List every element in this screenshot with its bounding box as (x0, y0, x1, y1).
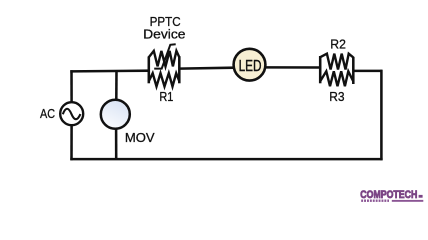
resistor R3 zigzag (bottom branch) (320, 71, 353, 86)
PPTC strike line (154, 44, 176, 68)
AC source circle (60, 102, 83, 125)
wire: left vertical lower (AC source to bottom rail) (70, 124, 73, 160)
wire: R2/R3 combo to right vertical (353, 70, 382, 73)
svg-text:R2: R2 (330, 37, 346, 52)
PPTC/R1 parallel combo: left bar (148, 57, 151, 84)
logo subline: url bar (392, 200, 424, 202)
wire: bottom rail (70, 158, 382, 161)
svg-text:R1: R1 (159, 89, 173, 104)
svg-text:LED: LED (239, 58, 262, 75)
wire: PPTC combo to LED (179, 66, 234, 69)
R2/R3 parallel combo: left bar (319, 56, 322, 83)
wire: LED to R2/R3 combo (265, 66, 321, 69)
varistor MOV circle (101, 100, 130, 129)
PPTC device zigzag (top branch) (149, 51, 180, 67)
svg-text:MOV: MOV (125, 130, 155, 145)
PPTC/R1 parallel combo: right bar (178, 56, 181, 83)
svg-text:Device: Device (143, 27, 185, 42)
logo small asia mark (419, 195, 423, 198)
logo subline: CJK tagline dots (361, 200, 389, 202)
svg-text:R3: R3 (329, 89, 344, 104)
wire: MOV branch upper vertical (115, 70, 118, 101)
svg-text:COMPOTECH: COMPOTECH (360, 189, 417, 201)
resistor R1 zigzag (bottom branch) (149, 73, 180, 86)
R2/R3 parallel combo: right bar (352, 57, 355, 84)
LED circle (234, 49, 266, 81)
resistor R2 zigzag (top branch) (320, 54, 353, 70)
wire: MOV branch lower vertical (115, 128, 118, 160)
wire: left vertical upper (corner to AC source) (70, 70, 73, 103)
svg-text:AC: AC (40, 106, 55, 121)
AC sine wave (63, 109, 81, 119)
wire: top-left horizontal (AC node to PPTC combo) (70, 69, 150, 72)
wire: right vertical (380, 70, 383, 161)
